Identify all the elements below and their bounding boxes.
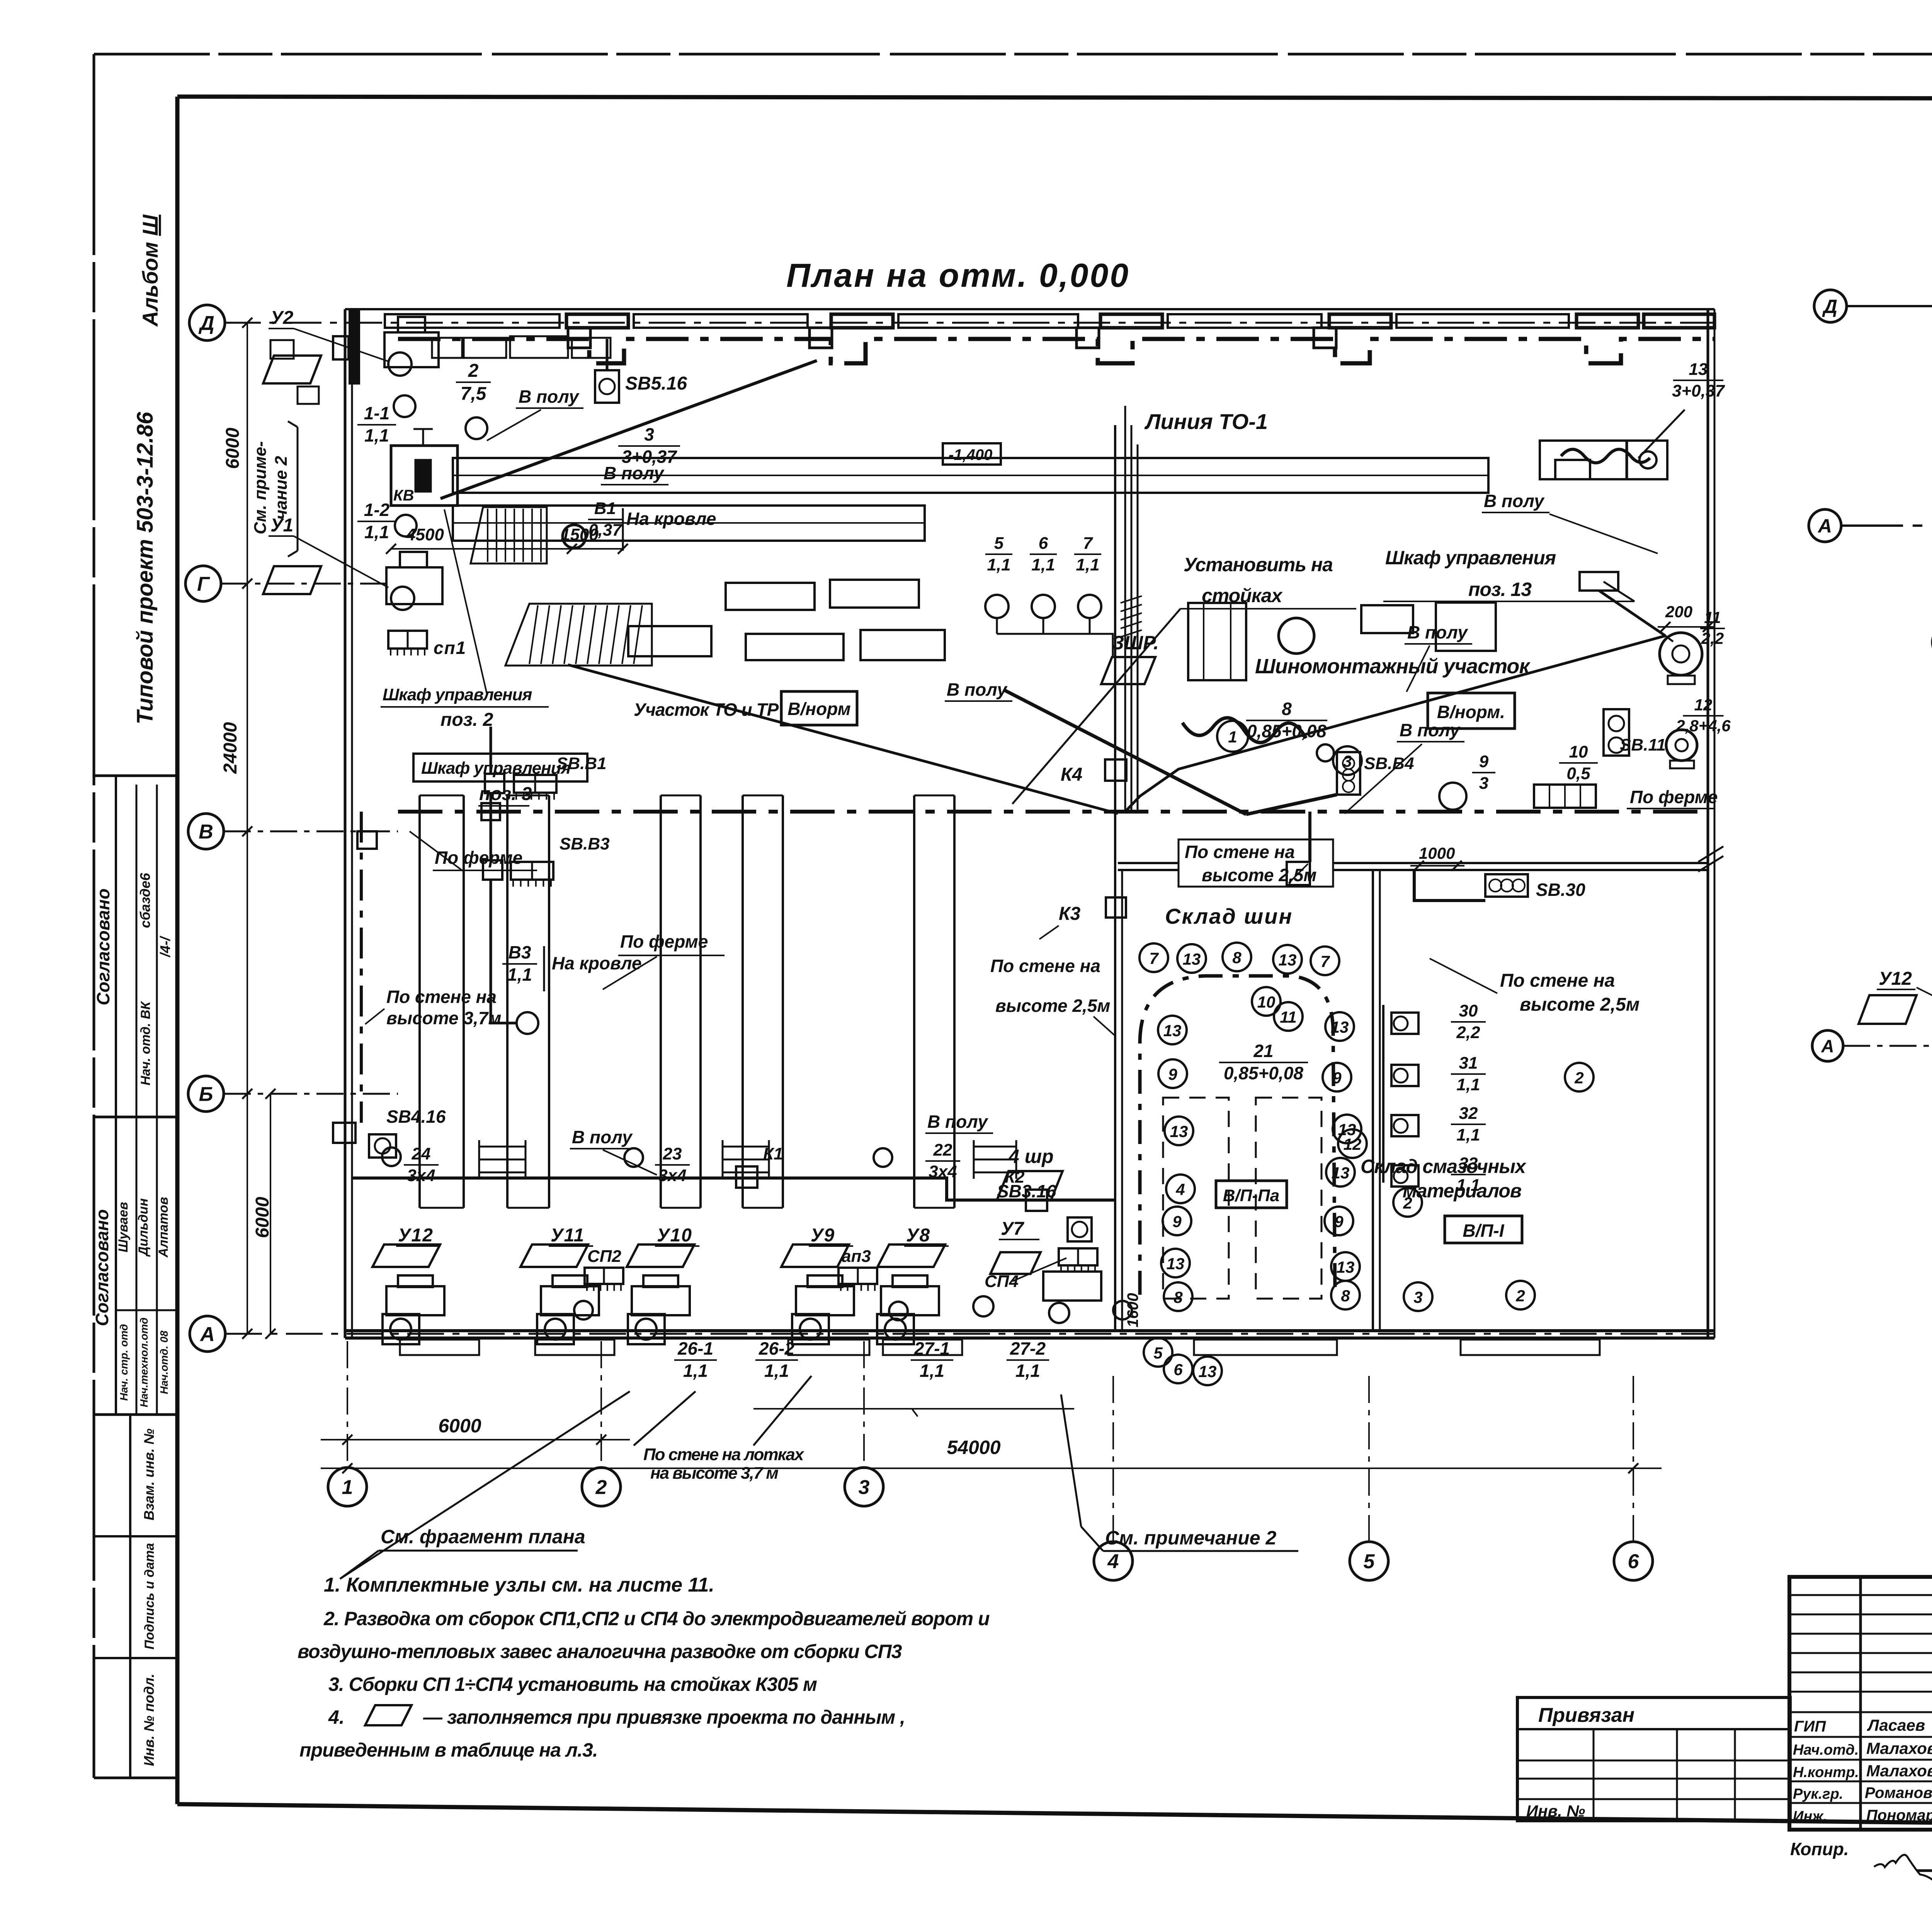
svg-text:Б: Б (199, 1083, 213, 1106)
svg-text:13: 13 (1183, 950, 1201, 968)
svg-text:1: 1 (342, 1476, 353, 1499)
svg-text:7: 7 (1149, 949, 1159, 967)
label В/норм box (workshop) (1428, 693, 1515, 729)
svg-text:Алпатов: Алпатов (156, 1197, 171, 1258)
svg-text:В/П-Па: В/П-Па (1223, 1186, 1279, 1205)
gate drive unit У8 plate (878, 1245, 945, 1267)
svg-text:13: 13 (1170, 1122, 1188, 1141)
svg-text:9: 9 (1334, 1212, 1344, 1231)
svg-text:6000: 6000 (223, 427, 243, 469)
interior wall axis 4 vertical (1114, 425, 1116, 1331)
svg-text:Н.контр.: Н.контр. (1793, 1764, 1859, 1781)
label SB.B4 and signal device (1337, 752, 1360, 795)
axis Б line (224, 1093, 398, 1095)
right exterior wall (axis 6) (1707, 309, 1709, 1338)
axis Д circle (189, 305, 225, 340)
gate drive unit У8 motor (881, 1286, 939, 1315)
stair hatch small (471, 507, 547, 564)
left dimension chain (247, 323, 248, 1334)
stair hatch large (505, 604, 652, 666)
label В/норм box (ТО и ТР) (781, 691, 857, 725)
svg-text:1,1: 1,1 (364, 522, 389, 542)
svg-text:Дильдин: Дильдин (136, 1199, 151, 1257)
svg-text:13: 13 (1167, 1255, 1185, 1273)
svg-text:6: 6 (1039, 534, 1048, 553)
svg-text:1,1: 1,1 (683, 1361, 708, 1381)
svg-text:4: 4 (1175, 1180, 1185, 1199)
circled position numbers in oil store (1393, 1188, 1422, 1217)
svg-text:У10: У10 (657, 1225, 692, 1246)
gate drive unit У9 motor (796, 1286, 854, 1315)
layout scheme: axis Д line (1847, 305, 1932, 307)
svg-text:Подпись и дата: Подпись и дата (142, 1543, 157, 1650)
svg-text:В полу: В полу (1400, 720, 1461, 740)
svg-text:По ферме: По ферме (435, 848, 522, 868)
svg-text:на высоте 3,7 м: на высоте 3,7 м (650, 1464, 778, 1483)
svg-text:У1: У1 (270, 515, 293, 536)
svg-text:В полу: В полу (519, 386, 580, 407)
label Шкаф управления поз.3 (boxed) (413, 754, 587, 781)
svg-text:27-1: 27-1 (914, 1338, 950, 1359)
layout scheme: axis Д circle (1814, 290, 1847, 322)
label В/П-I box (1445, 1216, 1522, 1243)
svg-text:Нач.отд. 08: Нач.отд. 08 (158, 1330, 170, 1394)
grid circles 4 5 6 with lines (1112, 1376, 1114, 1542)
svg-text:2: 2 (595, 1476, 607, 1499)
cable trunk risers at axis 4 (1124, 406, 1126, 812)
svg-text:чание 2: чание 2 (272, 456, 291, 519)
svg-text:Согласовано: Согласовано (93, 889, 113, 1005)
small box -1,400 (943, 443, 1001, 465)
title block outer frame (1789, 1577, 1932, 1830)
svg-text:См. фрагмент плана: См. фрагмент плана (381, 1526, 585, 1548)
svg-text:8: 8 (1232, 948, 1242, 967)
svg-text:9: 9 (1332, 1069, 1342, 1087)
service pits (5 pairs of rails) (418, 795, 421, 1208)
svg-text:3. Сборки СП 1÷СП4 установит: 3. Сборки СП 1÷СП4 установить на стойках… (328, 1674, 817, 1695)
svg-text:SB.30: SB.30 (1536, 880, 1585, 900)
inner drawing frame (177, 97, 1932, 99)
svg-text:SB4.16: SB4.16 (386, 1107, 446, 1127)
bottom dimension line 54000 (321, 1468, 1662, 1469)
svg-text:По стене на: По стене на (1185, 842, 1295, 862)
axis Г circle (185, 566, 221, 601)
svg-text:1-2: 1-2 (364, 500, 390, 520)
svg-text:См. примечание 2: См. примечание 2 (1105, 1527, 1276, 1549)
svg-text:К4: К4 (1061, 764, 1082, 785)
svg-text:4.: 4. (328, 1706, 345, 1728)
svg-text:У7: У7 (1001, 1219, 1025, 1239)
svg-text:У8: У8 (906, 1225, 930, 1246)
svg-text:сп1: сп1 (434, 638, 466, 658)
svg-text:В полу: В полу (1484, 491, 1545, 511)
svg-text:2,2: 2,2 (1701, 629, 1724, 647)
svg-text:высоте 2,5м: высоте 2,5м (995, 996, 1110, 1016)
svg-text:Линия ТО-1: Линия ТО-1 (1144, 409, 1268, 434)
svg-text:Взам. инв. №: Взам. инв. № (141, 1428, 157, 1520)
svg-text:1. Комплектные узлы см. на: 1. Комплектные узлы см. на листе 11. (324, 1574, 714, 1596)
svg-text:4: 4 (1107, 1551, 1119, 1573)
svg-text:Нач. стр. отд: Нач. стр. отд (118, 1324, 130, 1401)
svg-text:SB3.16: SB3.16 (997, 1181, 1056, 1201)
cabinet КВ (391, 446, 457, 506)
svg-text:У2: У2 (270, 308, 294, 328)
fragment: axis А circle (1812, 1030, 1843, 1061)
long diagonal cable across workshop (1125, 636, 1665, 812)
svg-text:6000: 6000 (438, 1415, 481, 1437)
svg-text:поз. 13: поз. 13 (1468, 579, 1532, 600)
svg-text:12: 12 (1344, 1135, 1362, 1153)
svg-text:У12: У12 (398, 1225, 434, 1246)
riser cable between SB.B1 and SB.B3 (490, 727, 492, 774)
privyazan table frame (1517, 1697, 1790, 1821)
svg-text:По ферме: По ферме (620, 931, 708, 952)
svg-text:13: 13 (1332, 1164, 1350, 1182)
svg-text:В полу: В полу (604, 463, 665, 483)
svg-text:1,1: 1,1 (920, 1361, 944, 1381)
axis Б circle (188, 1076, 224, 1112)
svg-text:54000: 54000 (947, 1437, 1000, 1458)
title block staff rows (1789, 1736, 1932, 1738)
gate drive unit У10 plate (627, 1245, 694, 1267)
svg-text:По стене на: По стене на (990, 956, 1100, 976)
svg-text:К3: К3 (1059, 904, 1081, 924)
svg-text:5: 5 (1153, 1344, 1163, 1362)
svg-text:Типовой проект 503-3-12.86: Типовой проект 503-3-12.86 (133, 412, 158, 724)
junction К4 on axis-4 cable (1105, 759, 1126, 781)
svg-text:7,5: 7,5 (461, 384, 487, 404)
svg-text:1-1: 1-1 (364, 403, 389, 423)
svg-text:9: 9 (1479, 752, 1489, 771)
sheet outer edge left (93, 54, 95, 1778)
svg-text:Нач. отд. ВК: Нач. отд. ВК (138, 1001, 153, 1086)
svg-text:К1: К1 (763, 1144, 783, 1163)
svg-text:На кровле: На кровле (626, 509, 716, 529)
gate drive unit У7 plate (990, 1252, 1041, 1274)
lamp circles on А wall (574, 1301, 593, 1319)
svg-text:22: 22 (933, 1141, 952, 1159)
svg-text:А: А (1821, 1036, 1834, 1056)
cable from cabinet to wall corner (1599, 591, 1665, 636)
hatched junction square near tire store wall (1287, 862, 1310, 885)
machine rects row in ТО и ТР area (726, 583, 815, 610)
axis А circle (190, 1316, 225, 1352)
interior wall between tire store and oil store (1372, 870, 1374, 1331)
svg-text:Согласовано: Согласовано (92, 1209, 112, 1326)
svg-text:200: 200 (1665, 603, 1692, 621)
title block left table verticals (1859, 1577, 1862, 1830)
svg-text:Копир.: Копир. (1790, 1839, 1849, 1859)
svg-text:/4-/: /4-/ (157, 935, 173, 958)
label В/П-IIа box (1216, 1181, 1287, 1208)
svg-text:КВ: КВ (393, 487, 414, 504)
svg-text:3: 3 (1413, 1288, 1422, 1306)
numbered point circles in tire store (1139, 943, 1168, 972)
svg-text:Малахов: Малахов (1866, 1739, 1932, 1757)
SB5.16 device and label (595, 370, 619, 403)
brace under labels (753, 1408, 1074, 1410)
svg-text:3x4: 3x4 (407, 1166, 435, 1185)
svg-text:7: 7 (1320, 952, 1330, 970)
svg-text:ГИП: ГИП (1794, 1718, 1826, 1735)
grid circles 1 2 3 with lines (347, 1341, 348, 1468)
svg-text:9: 9 (1172, 1212, 1182, 1231)
junction К3 (1106, 897, 1126, 918)
svg-text:Инж.: Инж. (1793, 1808, 1827, 1825)
svg-text:1,1: 1,1 (764, 1361, 789, 1381)
cable on left wall (по стене 3.7м) (360, 812, 363, 1123)
svg-text:Инв. №: Инв. № (1526, 1802, 1585, 1820)
svg-text:1500: 1500 (561, 525, 599, 544)
svg-text:Нач.отд.: Нач.отд. (1793, 1742, 1859, 1758)
svg-text:6: 6 (1173, 1360, 1183, 1379)
door sill pads below bottom wall (400, 1340, 479, 1355)
bottom dimension line 6000 (321, 1439, 630, 1440)
svg-text:Шиномонтажный участок: Шиномонтажный участок (1255, 655, 1531, 678)
svg-text:поз. 2: поз. 2 (440, 710, 493, 730)
svg-text:По стене на: По стене на (386, 987, 497, 1007)
axis Д line (224, 322, 1714, 324)
svg-text:В полу: В полу (927, 1112, 988, 1132)
junction boxes at wall steps (568, 328, 590, 348)
svg-text:1,1: 1,1 (1456, 1075, 1480, 1094)
svg-text:Ласаев: Ласаев (1867, 1716, 1925, 1734)
svg-text:SB.B3: SB.B3 (560, 834, 610, 853)
lamp circles upper-left (394, 395, 415, 417)
corner box with heater item 13 (1540, 441, 1667, 479)
svg-text:10: 10 (1257, 993, 1276, 1011)
tire racks (dashed) (1163, 1098, 1229, 1299)
svg-text:13: 13 (1331, 1018, 1349, 1036)
svg-text:2,2: 2,2 (1456, 1023, 1480, 1042)
svg-text:У12: У12 (1879, 969, 1912, 989)
svg-text:24000: 24000 (220, 722, 241, 774)
gate drive unit У12 plate (372, 1245, 440, 1267)
svg-text:21: 21 (1253, 1041, 1273, 1061)
svg-text:Шкаф управления: Шкаф управления (383, 685, 532, 704)
svg-text:В полу: В полу (947, 679, 1008, 700)
gate drive unit У9 plate (781, 1245, 849, 1267)
svg-text:По стене на лотках: По стене на лотках (643, 1445, 804, 1464)
top exterior wall (axis Д) (345, 308, 1714, 310)
axis А line (225, 1333, 1714, 1335)
svg-text:— заполняется при привязке: — заполняется при привязке проекта по да… (423, 1706, 905, 1728)
stamp block 2 frame (94, 1413, 177, 1416)
svg-text:Склад шин: Склад шин (1165, 904, 1293, 928)
У7 motor and assembly cluster (1059, 1248, 1097, 1265)
hatch ticks on trunk (1121, 596, 1142, 603)
svg-text:31: 31 (1459, 1054, 1478, 1073)
svg-text:приведенным в таблице на: приведенным в таблице на л.3. (299, 1739, 598, 1761)
svg-text:13: 13 (1689, 360, 1708, 379)
svg-text:1,1: 1,1 (987, 555, 1010, 574)
svg-text:воздушно-тепловых завес анал: воздушно-тепловых завес аналогична разво… (298, 1641, 902, 1662)
svg-text:высоте 3,7м: высоте 3,7м (386, 1008, 501, 1028)
svg-text:2. Разводка от сборок СП1,С: 2. Разводка от сборок СП1,СП2 и СП4 до э… (323, 1608, 990, 1629)
wall stub at Д/1 corner (350, 310, 359, 383)
svg-text:В/П-I: В/П-I (1463, 1221, 1504, 1241)
svg-text:0,85+0,08: 0,85+0,08 (1224, 1063, 1303, 1083)
pump unit 11/2,2 (1660, 633, 1702, 675)
unit У2 motor (384, 332, 439, 367)
device row on По ферме cable (1534, 785, 1596, 808)
svg-text:2: 2 (468, 361, 479, 381)
svg-text:1,1: 1,1 (1456, 1125, 1480, 1144)
conveyor band Линия ТО-1 (453, 458, 1488, 493)
svg-text:Нач.технол.отд: Нач.технол.отд (138, 1318, 150, 1407)
svg-text:А: А (1817, 515, 1832, 537)
control cabinet pos.13 box (1580, 572, 1618, 591)
svg-text:1600: 1600 (1124, 1293, 1141, 1328)
svg-text:Инв. № подл.: Инв. № подл. (141, 1674, 157, 1766)
svg-text:12: 12 (1694, 696, 1713, 714)
svg-text:По стене на: По стене на (1500, 970, 1615, 991)
svg-text:1,1: 1,1 (1015, 1361, 1040, 1381)
svg-text:2,8+4,6: 2,8+4,6 (1675, 717, 1731, 735)
svg-text:В полу: В полу (1407, 622, 1468, 642)
svg-text:1: 1 (1228, 728, 1237, 746)
svg-text:В/норм.: В/норм. (1437, 702, 1505, 722)
svg-text:13: 13 (1199, 1362, 1217, 1381)
bottom exterior wall (axis А) (345, 1329, 1714, 1332)
svg-text:1,1: 1,1 (1456, 1176, 1480, 1195)
unit У1 motor (386, 567, 442, 604)
svg-text:26-1: 26-1 (677, 1338, 713, 1359)
svg-text:1,1: 1,1 (1076, 555, 1099, 574)
cable loop in tire store (1140, 976, 1335, 1295)
svg-text:Склад смазочных: Склад смазочных (1361, 1156, 1527, 1177)
svg-text:В: В (199, 821, 213, 843)
gate drive unit У10 motor (632, 1286, 690, 1315)
svg-text:26-2: 26-2 (759, 1338, 794, 1359)
second pump unit (1666, 730, 1697, 761)
svg-text:сбазде6: сбазде6 (137, 873, 153, 928)
fragment: У12 plate (1859, 995, 1917, 1024)
junction К1 (736, 1166, 757, 1188)
svg-text:4500: 4500 (406, 525, 444, 544)
axis В circle (188, 814, 224, 849)
svg-text:Шкаф управления: Шкаф управления (1385, 547, 1556, 569)
svg-text:Установить на: Установить на (1184, 554, 1333, 575)
svg-text:SB5.16: SB5.16 (625, 373, 687, 394)
left exterior wall (axis 1) (344, 309, 347, 1338)
svg-text:30: 30 (1459, 1001, 1478, 1020)
signature below Копир. (1874, 1855, 1932, 1881)
svg-text:10: 10 (1569, 742, 1588, 761)
svg-text:См. приме-: См. приме- (251, 441, 270, 534)
svg-text:Пономарева: Пономарева (1866, 1807, 1932, 1824)
machine rects below top wall (432, 338, 462, 358)
svg-text:9: 9 (1168, 1065, 1177, 1083)
svg-text:поз. 3: поз. 3 (479, 784, 532, 804)
svg-text:Шкаф управления: Шкаф управления (421, 759, 571, 778)
svg-text:-1,400: -1,400 (949, 446, 992, 463)
main diagonal cable to workshop trunk (440, 361, 817, 499)
svg-text:11: 11 (1704, 608, 1721, 627)
svg-text:23: 23 (663, 1144, 682, 1163)
small squares on Д wall area (270, 340, 294, 359)
second conveyor band (453, 506, 925, 541)
cable В полу diagonal in workshop (1004, 690, 1246, 814)
svg-text:высоте 2,5м: высоте 2,5м (1520, 994, 1639, 1015)
svg-text:SB.11: SB.11 (1620, 735, 1666, 754)
svg-text:2: 2 (1515, 1287, 1525, 1305)
oil store devices with labels 30-33 (1391, 1013, 1418, 1034)
svg-text:Шуваев: Шуваев (116, 1202, 131, 1253)
svg-text:А: А (199, 1323, 215, 1346)
svg-text:Д: Д (198, 312, 214, 335)
svg-text:1,1: 1,1 (364, 426, 389, 446)
boxed label По стене на высоте 2,5м (1179, 839, 1333, 887)
svg-text:3: 3 (1479, 774, 1488, 793)
svg-text:33: 33 (1459, 1154, 1478, 1173)
svg-text:В3: В3 (509, 942, 531, 962)
gate drive unit У11 plate (520, 1245, 588, 1267)
svg-text:Малахов: Малахов (1866, 1762, 1932, 1780)
layout scheme: axis А line (1841, 524, 1932, 527)
svg-text:6: 6 (1628, 1551, 1639, 1573)
stepped cable line along top wall (по стене 3.7м) (398, 339, 1714, 363)
junction box on В cable (357, 831, 377, 849)
svg-text:3: 3 (644, 424, 654, 444)
svg-text:У11: У11 (551, 1225, 585, 1246)
assembly СП1 with label (388, 631, 427, 649)
svg-text:11: 11 (1280, 1008, 1297, 1026)
svg-text:0,5: 0,5 (1566, 764, 1590, 783)
fragment: axis А line (1843, 1045, 1932, 1047)
svg-text:Привязан: Привязан (1538, 1704, 1634, 1726)
svg-text:5: 5 (1364, 1551, 1375, 1573)
workshop machine: tall stand (1188, 603, 1246, 680)
workshop machine rects (1361, 605, 1413, 633)
svg-text:У9: У9 (811, 1225, 835, 1246)
svg-text:8: 8 (1341, 1287, 1350, 1305)
axis Г line (221, 583, 390, 585)
svg-text:8: 8 (1173, 1288, 1183, 1306)
svg-text:8: 8 (1282, 699, 1292, 719)
svg-text:высоте 2,5м: высоте 2,5м (1202, 865, 1316, 885)
svg-text:13: 13 (1163, 1021, 1182, 1040)
svg-text:4 шр: 4 шр (1008, 1146, 1054, 1167)
svg-text:Рук.гр.: Рук.гр. (1793, 1786, 1843, 1802)
wavy cable in workshop (1182, 718, 1306, 742)
interior wall between workshop and storerooms (1118, 862, 1708, 864)
svg-text:32: 32 (1459, 1104, 1478, 1123)
svg-text:Романовский: Романовский (1865, 1784, 1932, 1801)
unit У2 plate (263, 356, 321, 383)
svg-text:1,1: 1,1 (1031, 555, 1055, 574)
svg-text:По ферме: По ферме (1630, 787, 1718, 807)
junction К2 (1026, 1190, 1047, 1211)
sheet outer edge top (dashed scan line) (94, 53, 1932, 56)
stamp block 1 frame (94, 775, 177, 777)
svg-text:ап3: ап3 (842, 1247, 871, 1266)
workshop machine: big circle (1279, 618, 1314, 654)
svg-text:13: 13 (1279, 951, 1297, 969)
svg-text:2: 2 (1403, 1194, 1412, 1212)
diagonal cable from СП1 to К area (568, 665, 1118, 814)
cable drop from wall to SB5.16 (606, 339, 609, 370)
wall break marks on right wall (1698, 846, 1723, 862)
svg-text:3+0,37: 3+0,37 (1672, 381, 1725, 400)
svg-text:3: 3 (859, 1476, 870, 1499)
riser from SB.30 down through wall (1308, 812, 1311, 862)
svg-text:СП2: СП2 (587, 1247, 621, 1266)
svg-text:Г: Г (197, 573, 210, 596)
svg-text:В1: В1 (594, 499, 616, 518)
svg-text:5: 5 (994, 534, 1004, 553)
margin cells: Взам. инв. № / Подпись и дата / Инв. № подл. (94, 1535, 177, 1537)
